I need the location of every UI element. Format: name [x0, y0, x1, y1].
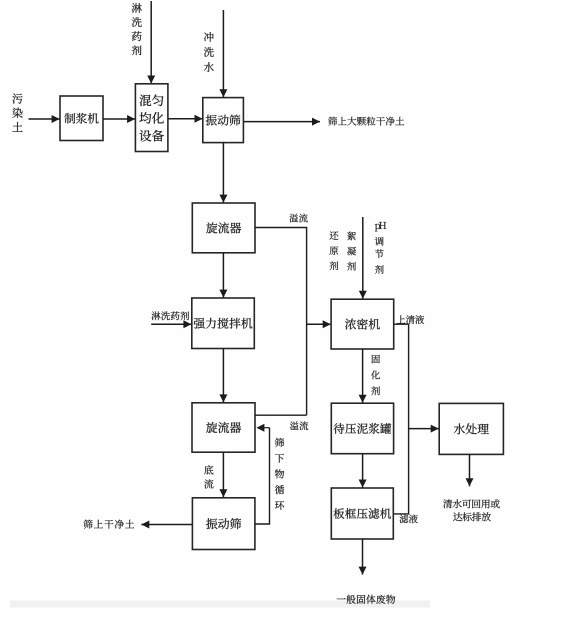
wire 振动筛 → 旋流器 (1) — [219, 143, 227, 203]
wire 振动筛(2)筛下物循环 → 旋流器(2) — [255, 424, 270, 524]
process box 浓密机 — [331, 299, 394, 349]
process box 混匀均化设备 — [135, 84, 168, 152]
wire 上清液/滤液 → 水处理 — [409, 425, 439, 433]
process box 振动筛 (2) — [192, 498, 255, 550]
wire 浓密机 → 待压泥浆罐 — [359, 349, 367, 403]
wire 旋流器(1)溢流 right-down — [255, 228, 307, 416]
wire 混匀均化设备 → 振动筛 — [168, 115, 203, 123]
wire 旋流器(1) → 强力搅拌机 — [219, 253, 227, 298]
node 筛上大颗粒干净土 — [328, 117, 404, 126]
wire 水处理 → 清水排放 — [466, 454, 474, 486]
wire 溢流 → 浓密机 — [307, 320, 331, 328]
wire 旋流器(2)溢流 join — [255, 414, 307, 416]
wire 板框压滤机 → 一般固体废物 — [359, 539, 367, 575]
wire 淋洗药剂 → 强力搅拌机 — [151, 320, 191, 328]
process box 振动筛 (1) — [203, 98, 244, 143]
wire 振动筛(2) → 筛上干净土 — [141, 521, 192, 529]
wire 振动筛 → 筛上大颗粒干净土 — [243, 118, 320, 126]
wire 淋洗药剂 → 混匀均化设备 — [147, 1, 155, 84]
node 还原剂 — [329, 231, 338, 270]
label 筛下物循环 — [275, 438, 284, 510]
node 絮凝剂 — [347, 232, 356, 271]
wire 污染土 → 制浆机 — [29, 115, 60, 123]
wire 待压泥浆罐 → 板框压滤机 — [359, 454, 367, 488]
node 底流 — [204, 465, 213, 488]
node 筛上干净土 — [84, 520, 135, 529]
wire 浓密机上清液 right-down — [393, 324, 408, 514]
process box 强力搅拌机 — [192, 298, 255, 349]
label 溢流 (overflow 1) — [289, 214, 307, 223]
label 溢流 (overflow 2) — [290, 421, 308, 430]
process box 旋流器 (2) — [192, 403, 255, 452]
node 污染土 (contaminated soil input) — [12, 94, 22, 132]
node 淋洗药剂 (reagent input, top) — [132, 3, 142, 55]
label 上清液 — [397, 315, 424, 324]
label 滤液 — [400, 514, 418, 523]
node 固化剂 — [371, 355, 380, 395]
node pH调节剂 — [375, 222, 386, 274]
process box 板框压滤机 — [331, 488, 393, 539]
process box 待压泥浆罐 — [331, 403, 393, 454]
process box 旋流器 (1) — [192, 203, 255, 253]
process box 制浆机 — [60, 96, 103, 141]
wire 制浆机 → 混匀均化设备 — [103, 115, 135, 123]
node 清水可回用或达标排放 — [443, 499, 500, 521]
wire 强力搅拌机 → 旋流器 (2) — [219, 349, 227, 403]
node 一般固体废物 — [337, 595, 395, 604]
node 冲洗水 (rinse water input) — [204, 32, 214, 72]
wire 旋流器(2) → 振动筛(2) — [219, 452, 227, 497]
wire 药剂 → 浓密机 — [359, 217, 367, 299]
node 淋洗药剂 (side reagent input) — [152, 311, 189, 320]
wire 冲洗水 → 振动筛 — [219, 10, 227, 97]
process box 水处理 — [439, 403, 503, 454]
